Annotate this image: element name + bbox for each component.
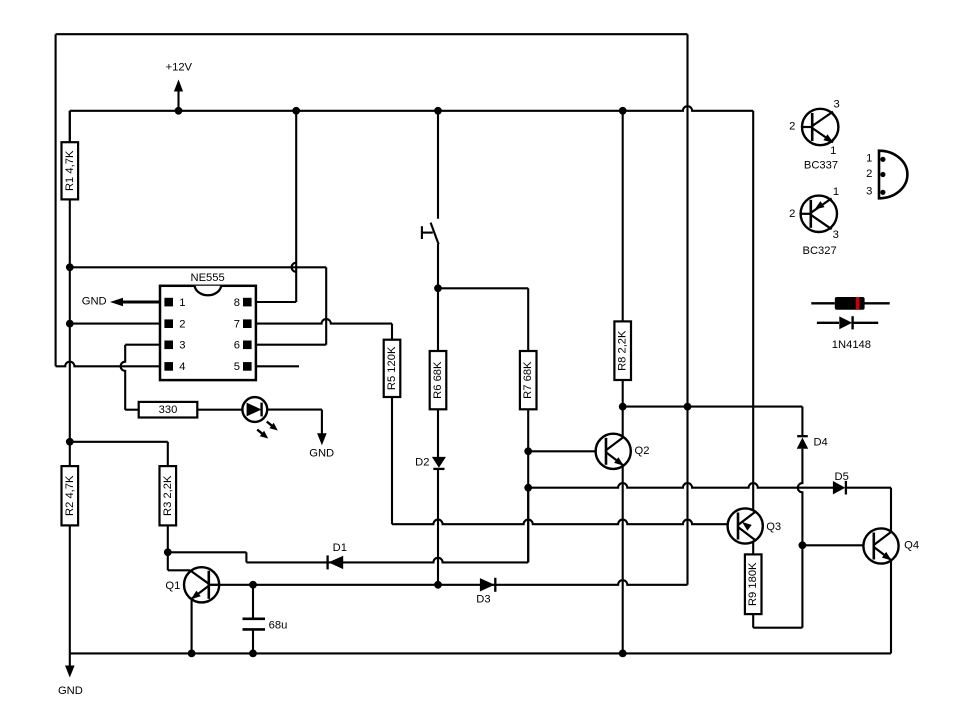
transistor symbol BC327 [789, 186, 839, 257]
ground main [58, 653, 83, 696]
svg-text:1: 1 [833, 186, 839, 198]
op-amp U1 NE555 [160, 272, 256, 380]
capacitor C1 68u [243, 619, 288, 632]
wire Q3 emitter column [752, 111, 754, 511]
resistor R1 [62, 142, 79, 199]
wire Q1 collector lead [168, 552, 191, 570]
resistor R8 [614, 321, 631, 380]
svg-text:D5: D5 [835, 471, 849, 483]
resistor R9 [745, 554, 762, 614]
wire Q1 emitter lead [191, 599, 193, 653]
wire LED to GND [267, 410, 322, 435]
transistor symbol BC337 [789, 99, 840, 172]
node Q1-gnd [188, 650, 196, 658]
node D2-D3 [434, 581, 442, 589]
node border-R8row [684, 403, 692, 411]
wire switch column upper [437, 111, 439, 219]
svg-text:Q3: Q3 [766, 521, 781, 533]
wire Q3 collector lead [752, 541, 754, 554]
resistor R5 [384, 340, 401, 397]
node rail-12V [175, 107, 183, 115]
node Q2-base [524, 447, 532, 455]
ground pin1 [82, 296, 160, 308]
diode symbol 1N4148 [817, 316, 878, 351]
node switch-R6 [434, 284, 442, 292]
wire left border [55, 34, 57, 366]
wire line A [392, 520, 728, 525]
wire R2 top lead [69, 442, 71, 466]
svg-text:1N4148: 1N4148 [832, 339, 871, 351]
wire top border [56, 33, 688, 35]
wire R8 bottom row [623, 407, 803, 436]
package TO-92 pinout [866, 151, 907, 199]
wire Q4 emitter lead [890, 560, 892, 653]
wire R3 bottom jog [168, 552, 247, 562]
svg-text:D1: D1 [333, 542, 347, 554]
svg-text:GND: GND [82, 296, 107, 308]
svg-text:2: 2 [789, 208, 795, 220]
wire 330 to LED [198, 409, 243, 411]
resistor R6 [430, 351, 447, 409]
wire pin6 loop [70, 267, 326, 344]
wire R1 column [69, 111, 71, 142]
svg-text:3: 3 [179, 340, 185, 352]
wire Q2 emitter column [622, 467, 624, 654]
svg-text:R7 68K: R7 68K [522, 361, 534, 399]
node R3-Q1 [164, 548, 172, 556]
node Q2e-gnd [619, 650, 627, 658]
wire 68u bottom lead [252, 630, 254, 653]
svg-text:+12V: +12V [166, 61, 193, 73]
svg-text:2: 2 [866, 168, 872, 180]
node rail-switch [434, 107, 442, 115]
resistor R2 [62, 466, 79, 525]
svg-text:D2: D2 [415, 456, 429, 468]
diode package 1N4148 body [811, 297, 889, 310]
svg-text:3: 3 [866, 186, 872, 198]
svg-text:2: 2 [179, 318, 185, 330]
LED LD1 [242, 397, 277, 438]
svg-text:2: 2 [789, 121, 795, 133]
svg-text:BC327: BC327 [802, 245, 836, 257]
svg-text:Q2: Q2 [635, 445, 650, 457]
svg-text:NE555: NE555 [190, 272, 224, 284]
svg-text:D3: D3 [476, 593, 490, 605]
svg-text:3: 3 [833, 229, 839, 241]
wire 68u top lead [252, 585, 254, 618]
node pin6-left [66, 263, 74, 271]
svg-text:R5 120K: R5 120K [386, 346, 398, 390]
wire switch to R7 link [438, 287, 528, 289]
node rail-R8 [619, 107, 627, 115]
diode D3 [476, 578, 495, 606]
svg-text:3: 3 [833, 99, 839, 111]
switch S1 [422, 223, 439, 289]
wire pin5 stub [256, 365, 299, 367]
svg-text:R9 180K: R9 180K [747, 562, 759, 606]
resistor 330 [139, 402, 198, 418]
svg-text:1: 1 [830, 145, 836, 157]
diode D2 [415, 456, 446, 469]
wire pin7 to R5 [256, 319, 392, 340]
wire +12V rail [70, 106, 753, 142]
transistor Q3 [728, 508, 782, 543]
wire line D [528, 483, 891, 532]
svg-text:5: 5 [234, 361, 240, 373]
wire pin8 to rail [256, 111, 296, 302]
transistor Q1 [165, 567, 219, 602]
wire R2 bottom lead [69, 525, 71, 653]
wire pin3 to 330 column [121, 345, 160, 410]
svg-text:GND: GND [309, 448, 334, 460]
resistor R7 [520, 351, 537, 409]
svg-text:8: 8 [234, 297, 240, 309]
svg-text:Q1: Q1 [165, 580, 180, 592]
svg-text:R8 2,2K: R8 2,2K [617, 330, 629, 371]
node Q4-base [799, 541, 807, 549]
wire R3 top link [70, 442, 168, 466]
wire R1 to rail-2 junction [69, 199, 71, 441]
node lineD-R7 [524, 484, 532, 492]
transistor Q2 [596, 434, 650, 469]
wire R6 D2 column [437, 288, 439, 585]
svg-text:6: 6 [234, 340, 240, 352]
wire R7 D1 link [527, 488, 529, 563]
transistor Q4 [863, 528, 919, 563]
svg-text:R3 2,2K: R3 2,2K [162, 475, 174, 516]
svg-text:R2 4,7K: R2 4,7K [64, 475, 76, 516]
node 68u-top [249, 581, 257, 589]
wire D4 lower column [798, 449, 803, 628]
node R2-R3 [66, 438, 74, 446]
wire R9 bottom jog [753, 614, 802, 628]
svg-text:68u: 68u [269, 619, 288, 631]
wire pin4 border link [56, 362, 160, 367]
wire ground rail [70, 652, 891, 654]
node +12V [166, 61, 193, 111]
node 68u-gnd [249, 650, 257, 658]
svg-text:7: 7 [234, 318, 240, 330]
wire R8 column [622, 111, 624, 407]
diode D5 [833, 471, 849, 494]
wire Q2 collector lead [622, 407, 624, 437]
resistor R3 [160, 466, 177, 525]
wire right border column [686, 34, 688, 585]
svg-text:4: 4 [179, 361, 185, 373]
wire Q4 base lead [802, 544, 863, 546]
svg-text:GND: GND [58, 685, 83, 697]
wire R7 column [527, 288, 529, 562]
wire line B D1 [246, 558, 528, 563]
wire line C [209, 580, 688, 585]
diode D4 [797, 436, 828, 449]
wire R3 bottom lead [167, 525, 169, 552]
diode D1 [328, 542, 347, 569]
wire pin2 stub [70, 323, 160, 325]
svg-text:330: 330 [159, 404, 178, 416]
node R8-bottom [619, 403, 627, 411]
svg-text:R6 68K: R6 68K [432, 361, 444, 399]
node rail-pin8 [292, 107, 300, 115]
svg-text:Q4: Q4 [904, 539, 919, 551]
svg-text:1: 1 [866, 153, 872, 165]
svg-text:R1 4,7K: R1 4,7K [64, 150, 76, 191]
wire R5 lower column [391, 397, 393, 524]
svg-text:1: 1 [179, 297, 185, 309]
node pin2-left [66, 320, 74, 328]
svg-text:BC337: BC337 [804, 160, 838, 172]
wire Q2 base lead [528, 450, 597, 452]
svg-text:D4: D4 [813, 437, 827, 449]
ground LED [309, 433, 334, 459]
